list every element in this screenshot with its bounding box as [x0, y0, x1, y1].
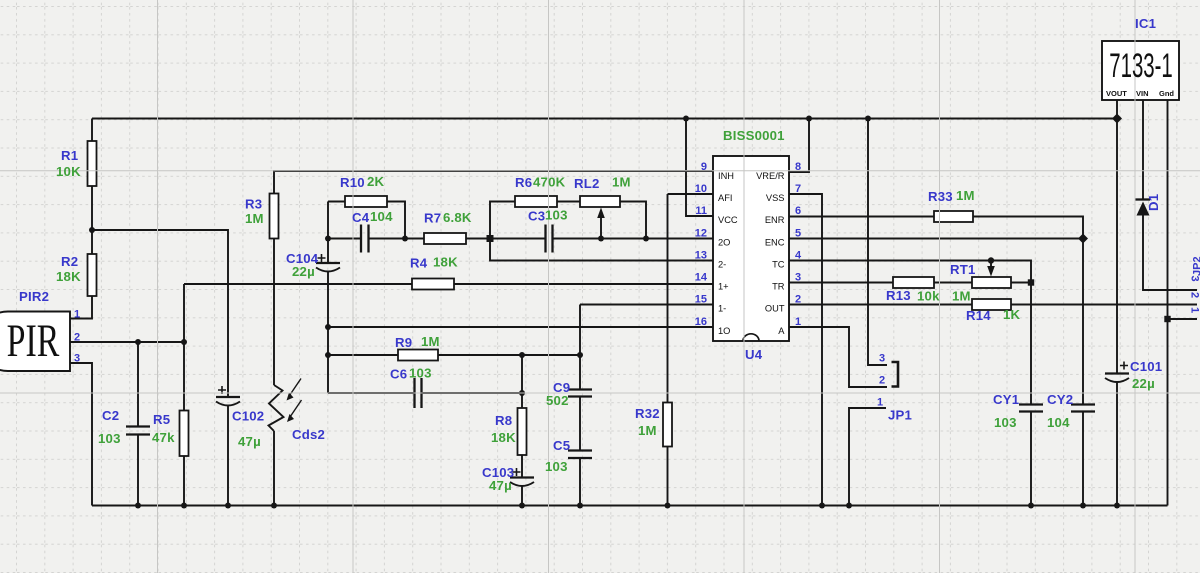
node R9 right [577, 352, 583, 358]
jumper JP1 bracket [892, 362, 899, 387]
wire R10 right lead down [387, 202, 405, 239]
wire R3 top to pin9 INH line [274, 171, 713, 194]
svg-text:103: 103 [545, 208, 568, 223]
svg-text:2: 2 [879, 375, 885, 387]
svg-text:104: 104 [370, 209, 393, 224]
wire PIR pin3 to ground [70, 363, 92, 506]
svg-text:10: 10 [695, 183, 707, 195]
resistor R5 [180, 411, 189, 457]
svg-text:6: 6 [795, 205, 801, 217]
wire JP1 pin1 to ground [849, 408, 886, 506]
node RL2 wiper tap [598, 236, 604, 242]
IC IC1 7133-1 box [1102, 41, 1179, 100]
node ground C102 [225, 503, 231, 509]
node C104 top [325, 236, 331, 242]
node ground C101 [1114, 503, 1120, 509]
svg-text:103: 103 [409, 366, 432, 381]
wire R6 branch left vertical [490, 202, 515, 239]
svg-text:VIN: VIN [1136, 89, 1149, 98]
svg-text:1M: 1M [956, 188, 975, 203]
node R9 R8 tap [519, 352, 525, 358]
svg-text:VSS: VSS [766, 193, 785, 203]
wire CY2 to ground [1082, 412, 1084, 506]
node R9 left [325, 352, 331, 358]
wire IC1 VIN to D1 [1142, 100, 1144, 200]
node R5 top [181, 339, 187, 345]
svg-text:Gnd: Gnd [1159, 89, 1174, 98]
svg-text:2O: 2O [718, 238, 730, 248]
svg-text:R14: R14 [966, 308, 991, 323]
resistor R3 [270, 194, 279, 239]
svg-text:103: 103 [994, 415, 1017, 430]
photoresistor Cds2 zigzag [269, 385, 284, 431]
svg-text:Cds2: Cds2 [292, 427, 325, 442]
svg-text:18K: 18K [56, 269, 81, 284]
svg-text:C3: C3 [528, 209, 545, 224]
svg-text:2: 2 [74, 332, 80, 344]
svg-text:16: 16 [695, 316, 707, 328]
svg-text:VCC: VCC [718, 215, 738, 225]
wire C104 bottom to C6 line [327, 272, 329, 393]
wire C103 to ground [521, 486, 523, 506]
svg-text:1: 1 [877, 397, 883, 409]
wire pin7 VSS down to ground [789, 194, 822, 506]
svg-text:U4: U4 [745, 347, 763, 362]
capacitor C4 plates [361, 225, 369, 253]
svg-text:R7: R7 [424, 211, 441, 226]
svg-text:5: 5 [795, 228, 801, 240]
wire pin10 AFI line [668, 193, 714, 195]
node ground CY1 [1028, 503, 1034, 509]
resistor R10 [345, 196, 387, 207]
resistor R14 [972, 299, 1011, 310]
svg-text:22µ: 22µ [292, 264, 315, 279]
svg-text:3: 3 [795, 272, 801, 284]
node R1-R2 junction [89, 227, 95, 233]
svg-text:R3: R3 [245, 197, 262, 212]
svg-text:1M: 1M [612, 175, 631, 190]
svg-text:18K: 18K [433, 255, 458, 270]
node ground C2 [135, 503, 141, 509]
svg-text:1M: 1M [952, 289, 971, 304]
svg-text:104: 104 [1047, 415, 1070, 430]
svg-text:9: 9 [701, 161, 707, 173]
svg-text:R6: R6 [515, 175, 532, 190]
wire pin1 A to JP1 pin2 [789, 327, 887, 387]
wire R8 branch [521, 355, 523, 408]
wire main 2O line segment A [328, 238, 361, 240]
svg-text:C6: C6 [390, 367, 407, 382]
wire R3 bottom to Cds2 [273, 239, 275, 386]
svg-text:470K: 470K [533, 175, 566, 190]
wire RT1 to TC node [1011, 282, 1031, 284]
wire JP1 pin3 from rail [868, 119, 887, 366]
node ground JP1 [846, 503, 852, 509]
svg-text:2-: 2- [718, 260, 726, 270]
capacitor C9 plates [568, 390, 592, 397]
wire Gnd stub to edge pin1 [1168, 318, 1198, 320]
capacitor C103 electrolytic [510, 476, 534, 478]
wire pin14 1+ line [184, 283, 713, 285]
wire pin5 ENC line [789, 238, 1083, 240]
wire IC1 VOUT lead [1116, 100, 1118, 119]
wire C6 line right [422, 392, 523, 394]
capacitor C5 plates [568, 451, 592, 459]
svg-text:47µ: 47µ [489, 478, 512, 493]
svg-text:3: 3 [74, 353, 80, 365]
wire main 2O line segment B [369, 238, 546, 240]
node VOUT rail diamond [1112, 114, 1122, 124]
wire R6 to RL2 [557, 201, 580, 203]
wire PIR pin2 [70, 341, 184, 343]
resistor R32 [663, 403, 672, 447]
wire C102 bottom to ground rail [227, 406, 229, 506]
capacitor C102 electrolytic [216, 396, 240, 398]
node ENC diamond [1078, 234, 1088, 244]
svg-text:1: 1 [795, 316, 801, 328]
svg-text:C4: C4 [352, 210, 370, 225]
svg-text:R33: R33 [928, 189, 953, 204]
wire pin13 2- line [490, 239, 713, 261]
potentiometer RT1 wiper arrow [990, 261, 992, 267]
svg-text:OUT: OUT [765, 304, 785, 314]
svg-text:C5: C5 [553, 438, 570, 453]
svg-text:7: 7 [795, 183, 801, 195]
node ground CY2 [1080, 503, 1086, 509]
svg-text:ENR: ENR [765, 215, 785, 225]
svg-text:502: 502 [546, 393, 569, 408]
svg-text:6.8K: 6.8K [443, 210, 472, 225]
potentiometer RL2 wiper arrow [600, 217, 602, 239]
wire R5 top lead [183, 342, 185, 411]
svg-text:1O: 1O [718, 326, 730, 336]
wire pin6 ENR to R33 [789, 216, 934, 218]
svg-text:12: 12 [695, 228, 707, 240]
svg-text:IC1: IC1 [1135, 16, 1156, 31]
svg-text:14: 14 [695, 272, 708, 284]
svg-text:1K: 1K [1003, 307, 1021, 322]
svg-text:103: 103 [545, 459, 568, 474]
svg-text:R32: R32 [635, 406, 660, 421]
capacitor C104 electrolytic [316, 262, 340, 264]
svg-text:1M: 1M [421, 334, 440, 349]
svg-text:22µ: 22µ [1132, 376, 1155, 391]
svg-text:4: 4 [795, 250, 802, 262]
wire C2 top lead [137, 342, 139, 427]
wire R1 bottom to R2 top [91, 186, 93, 254]
node TC RT1 square [1028, 279, 1034, 285]
svg-text:10K: 10K [56, 164, 81, 179]
resistor R13 [893, 277, 934, 288]
svg-text:R2: R2 [61, 254, 78, 269]
svg-text:R5: R5 [153, 412, 170, 427]
capacitor C6 plates [415, 378, 422, 408]
svg-text:15: 15 [695, 294, 707, 306]
wire pin3 TR to R13 [789, 282, 893, 284]
svg-text:AFI: AFI [718, 193, 732, 203]
svg-text:8: 8 [795, 161, 801, 173]
resistor R9 [398, 350, 438, 361]
svg-text:R8: R8 [495, 413, 512, 428]
wire TC node down to CY1 [1030, 283, 1032, 405]
potentiometer RL2 body [580, 196, 620, 207]
svg-text:R1: R1 [61, 148, 78, 163]
svg-text:PIR: PIR [7, 315, 60, 367]
capacitor C2 plates [126, 427, 150, 435]
svg-text:PIR2: PIR2 [19, 289, 49, 304]
wire IC1 Gnd down right edge [1167, 100, 1169, 506]
node ground VSS [819, 503, 825, 509]
svg-text:CY1: CY1 [993, 392, 1019, 407]
resistor R8 [518, 408, 527, 455]
wire RL2 right down to 2O line [620, 202, 646, 239]
svg-text:1M: 1M [638, 423, 657, 438]
wire C2 bottom lead [137, 435, 139, 506]
svg-text:CY2: CY2 [1047, 392, 1073, 407]
node R6 branch left [487, 235, 494, 242]
svg-text:R13: R13 [886, 288, 911, 303]
svg-text:R10: R10 [340, 175, 365, 190]
wire CY1 to ground [1030, 412, 1032, 506]
svg-text:13: 13 [695, 250, 707, 262]
svg-text:A: A [778, 326, 785, 336]
node ground C103 [519, 503, 525, 509]
wire C5 to ground [579, 458, 581, 506]
wire R10 left lead [328, 201, 345, 203]
wire pin15 down to R9 and C9 [579, 305, 581, 390]
svg-text:TC: TC [772, 260, 785, 270]
wire R1-R2 junction to C102 top [92, 230, 228, 397]
node 1O tap [325, 324, 331, 330]
capacitor CY2 plates [1071, 405, 1095, 412]
svg-text:2: 2 [1189, 292, 1200, 298]
svg-text:C101: C101 [1130, 359, 1162, 374]
resistor R4 [412, 279, 454, 290]
node top rail VRE/R drop [806, 116, 812, 122]
svg-text:10k: 10k [917, 289, 940, 304]
node ground C5 [577, 503, 583, 509]
wire Cds2 bottom to ground [273, 431, 275, 506]
wire R5 branch up to 1+ line [183, 284, 185, 342]
node R10 right [402, 236, 408, 242]
svg-text:JP1: JP1 [888, 408, 912, 423]
node Gnd edge square [1164, 316, 1170, 322]
svg-text:103: 103 [98, 431, 121, 446]
node top rail JP1 drop [865, 116, 871, 122]
capacitor CY1 plates [1019, 405, 1043, 412]
capacitor C3 plates [546, 225, 553, 253]
wire C9 to C5 [579, 397, 581, 451]
svg-text:C2: C2 [102, 408, 119, 423]
resistor R2 [88, 254, 97, 296]
svg-text:R9: R9 [395, 335, 412, 350]
resistor R1 [88, 141, 97, 186]
svg-text:47k: 47k [152, 430, 175, 445]
svg-text:2K: 2K [367, 174, 385, 189]
svg-text:1-: 1- [718, 304, 726, 314]
node RL2 branch right [643, 236, 649, 242]
svg-text:7133-1: 7133-1 [1109, 47, 1172, 85]
svg-text:3: 3 [879, 353, 885, 365]
wire pin8 VRE/R up to rail [789, 119, 809, 173]
wire R9 line [328, 354, 580, 356]
node C6 R8 junction [519, 390, 525, 396]
svg-text:INH: INH [718, 171, 734, 181]
wire R5 bottom lead [183, 456, 185, 506]
wire pin16 1O line [328, 326, 713, 328]
photoresistor Cds2 light arrows [290, 379, 302, 396]
resistor R33 [934, 211, 973, 222]
svg-text:VOUT: VOUT [1106, 89, 1127, 98]
wire VCC top rail [92, 118, 1117, 120]
svg-text:JP2: JP2 [1192, 256, 1200, 276]
svg-text:ENC: ENC [765, 238, 785, 248]
svg-text:1: 1 [74, 309, 80, 321]
wire VCC drop to pin11 [686, 119, 713, 217]
wire R2 bottom to PIR pin1 [70, 296, 92, 319]
svg-text:RL2: RL2 [574, 176, 600, 191]
diode D1 [1135, 198, 1150, 200]
svg-text:TR: TR [772, 282, 785, 292]
wire AFI down to R32 [667, 194, 669, 403]
node ground R5 [181, 503, 187, 509]
svg-text:2: 2 [795, 294, 801, 306]
wire D1 down to edge pin3 [1143, 216, 1197, 291]
potentiometer RT1 body [972, 277, 1011, 288]
wire ENC node down to CY2 [1082, 239, 1084, 405]
wire R32 to ground [667, 447, 669, 506]
svg-text:11: 11 [695, 205, 707, 217]
node RT1 wiper TC [988, 257, 994, 263]
wire ground rail [92, 505, 1168, 507]
wire pin4 TC line [789, 261, 1031, 283]
svg-text:18K: 18K [491, 430, 516, 445]
wire R13 to RT1 [934, 282, 972, 284]
wire R1 top lead [91, 119, 93, 142]
IC U4 BISS0001 box [713, 156, 789, 341]
node C2 top [135, 339, 141, 345]
svg-text:D1: D1 [1146, 194, 1161, 211]
node top rail INH drop [683, 116, 689, 122]
wire VOUT down to C101 [1116, 119, 1118, 374]
wire main 2O line segment C [553, 238, 714, 240]
PIR sensor body PIR2 [0, 312, 70, 372]
wire C101 to ground [1116, 382, 1118, 506]
capacitor C101 electrolytic [1105, 372, 1129, 374]
wire pin2 OUT line [789, 304, 1197, 306]
node ground R32 [665, 503, 671, 509]
svg-text:R4: R4 [410, 256, 428, 271]
wire C104 vertical branch [327, 202, 329, 264]
svg-text:1+: 1+ [718, 282, 729, 292]
wire R8 to C103 [521, 455, 523, 478]
svg-text:RT1: RT1 [950, 262, 976, 277]
wire R33 right then down to ENC node [973, 217, 1083, 239]
resistor R7 [424, 233, 466, 244]
svg-text:3: 3 [1189, 276, 1200, 282]
svg-text:1M: 1M [245, 211, 264, 226]
svg-text:1: 1 [1189, 307, 1200, 313]
svg-text:BISS0001: BISS0001 [723, 128, 785, 143]
resistor R6 [515, 196, 557, 207]
node ground Cds2 [271, 503, 277, 509]
svg-text:VRE/R: VRE/R [756, 171, 785, 181]
wire C6 line left [328, 392, 415, 394]
IC U4 bottom notch [743, 334, 759, 341]
svg-text:C102: C102 [232, 409, 264, 424]
svg-text:47µ: 47µ [238, 434, 261, 449]
wire pin15 1- line [580, 304, 713, 306]
